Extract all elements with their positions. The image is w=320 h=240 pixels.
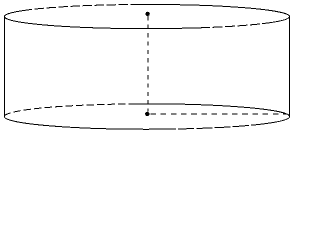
bottom ellipse front (lower) arc: solid left portion (4, 117, 160, 130)
bottom ellipse front (lower) arc: long-dashed middle portion (160, 124, 265, 130)
dashed radius line from bottom center to right edge (150, 113, 287, 115)
wire: right side of cylinder (289, 16, 291, 117)
bottom ellipse back (upper) arc: solid right portion (134, 104, 290, 117)
node: top center dot (145, 12, 149, 16)
cylinder top face ellipse: solid right tip arc (262, 17, 290, 24)
bottom ellipse back (upper) arc: dashed left portion (hidden edge) (4, 104, 134, 117)
cylinder top face ellipse: upper-left arc with fine breaks (25, 4, 140, 10)
wire: left side of cylinder (4, 17, 6, 117)
dashed axis line between top and bottom centers (147, 16, 149, 111)
cylinder top face ellipse: solid upper-right arc (140, 4, 290, 16)
bottom ellipse front (lower) arc: solid right end near tip (265, 117, 290, 124)
node: bottom center dot (145, 112, 149, 116)
cylinder top face ellipse: lower-right arc with fine breaks (200, 24, 262, 28)
cylinder top face ellipse: solid left tip and lower-left arc (4, 10, 200, 28)
